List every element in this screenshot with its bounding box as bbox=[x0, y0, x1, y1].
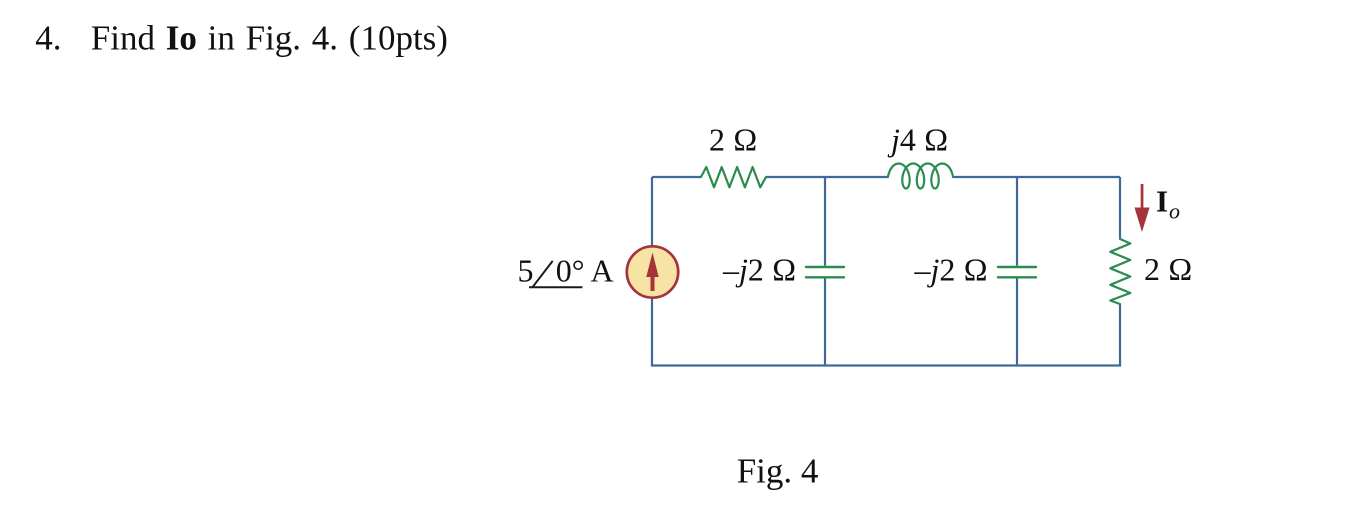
svg-text:–j2 Ω: –j2 Ω bbox=[914, 252, 988, 288]
svg-text:Fig. 4: Fig. 4 bbox=[737, 452, 819, 491]
svg-text:–j2 Ω: –j2 Ω bbox=[722, 252, 796, 288]
svg-text:0°: 0° bbox=[556, 253, 585, 289]
svg-text:5: 5 bbox=[518, 253, 534, 289]
svg-text:Find Io in Fig. 4. (10pts): Find Io in Fig. 4. (10pts) bbox=[91, 19, 448, 58]
svg-text:A: A bbox=[591, 253, 614, 289]
svg-text:o: o bbox=[1169, 199, 1180, 224]
svg-text:I: I bbox=[1156, 184, 1168, 219]
svg-text:2 Ω: 2 Ω bbox=[1144, 251, 1193, 287]
svg-text:j4 Ω: j4 Ω bbox=[887, 122, 948, 158]
svg-text:2 Ω: 2 Ω bbox=[709, 122, 758, 158]
svg-text:4.: 4. bbox=[35, 19, 61, 58]
